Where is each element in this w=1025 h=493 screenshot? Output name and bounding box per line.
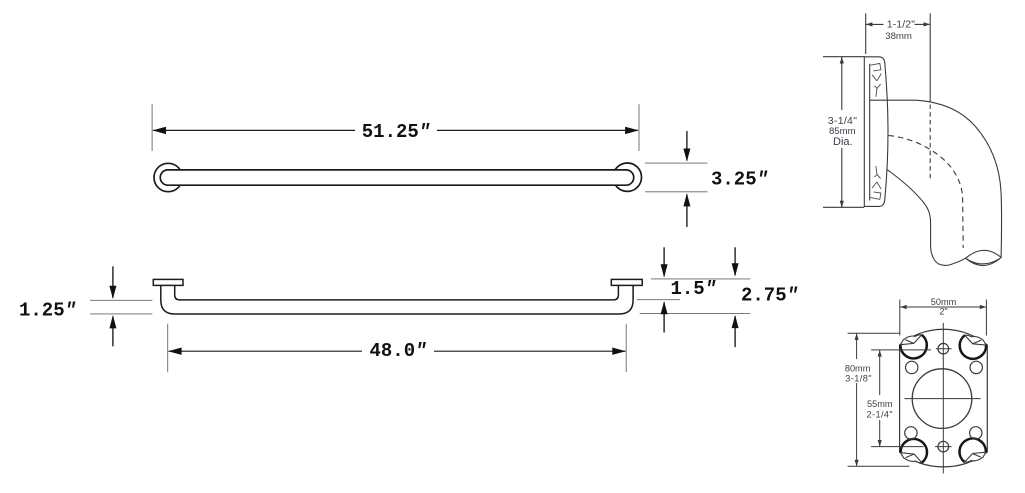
svg-text:3-1/8": 3-1/8" [845,374,872,384]
svg-text:55mm: 55mm [867,399,893,409]
label 1.5 [671,278,717,300]
dashed near-edge line [929,105,931,181]
extension line bottom 3-1/4 [823,206,864,208]
extension line top 1.25 [90,299,152,301]
arrow down 2.75 [732,247,739,276]
svg-text:1.5″: 1.5″ [671,278,717,300]
extension line top 3-1/4 [823,56,864,58]
extension line left 51.25 [151,104,153,151]
arrowhead down 55mm [878,440,882,447]
tube side view outer edge [161,285,633,314]
extension line top 1.5 / 2.75 [651,278,751,280]
extension line right 51.25 [638,104,640,151]
arrowhead up 55mm [878,350,882,357]
svg-text:2": 2" [939,307,947,317]
label 55mm 2-1/4in [866,399,893,419]
flange screw sketch top [871,63,882,96]
tube front view [160,170,633,185]
arrow up 1.25 [109,315,116,346]
extension line top 80mm [848,332,901,334]
screw hole bottom [938,441,949,452]
extension line left 50mm [899,300,901,336]
flange body outline [900,329,988,467]
extension line right 50mm [985,300,987,336]
flange plate right [611,279,642,285]
svg-text:51.25″: 51.25″ [362,121,430,143]
flange circle right [613,163,641,191]
extension line bottom 55mm [871,446,923,448]
extension line bottom 80mm [848,465,910,467]
svg-text:3-1/4": 3-1/4" [828,115,857,127]
arrow down 3.25 [683,131,690,162]
flange plate inner line [869,64,871,201]
arrowhead down 3-1/4 [840,201,844,208]
tube side view inner edge [175,285,619,300]
extension line bottom 3.25 [645,191,708,193]
extension line right 1-1/2 [929,13,931,102]
svg-text:1-1/2": 1-1/2" [887,19,915,31]
flange dome outline [864,57,888,207]
svg-text:38mm: 38mm [885,31,912,42]
extension line mid 1.5 [637,299,680,301]
small hole top-left [906,361,918,373]
label 50mm 2in [931,297,957,317]
extension line top 3.25 [645,162,708,164]
dimension line 3-1/4 [841,57,843,110]
arrowhead right 1-1/2 [924,22,931,26]
extension line top 55mm [871,349,931,351]
svg-text:48.0″: 48.0″ [369,340,426,362]
dimension line 80mm [856,333,858,359]
arrowhead left 1-1/2 [866,22,873,26]
dashed centerline curve [889,136,964,249]
screw hole top [938,343,949,354]
arrowhead down 80mm [855,460,859,467]
tube end wall thickness arc [967,258,1000,264]
label 80mm 3-1/8in [845,363,872,383]
svg-text:80mm: 80mm [845,363,871,373]
svg-text:50mm: 50mm [931,297,957,307]
small hole bottom-left [905,427,917,439]
screw hole bottom cross line [935,446,952,448]
arrow up 3.25 [683,193,690,227]
arrowhead up 3-1/4 [840,57,844,64]
screw hole top cross line [936,348,952,350]
arrow up 2.75 [732,315,739,347]
dimension line 51.25 [153,129,638,131]
arrow down 1.25 [109,266,116,299]
svg-text:2.75″: 2.75″ [741,284,798,306]
center line vertical [942,323,944,474]
extension line right 48.0 [625,324,627,372]
arrowhead up 80mm [855,333,859,340]
center circle [912,369,972,429]
label 3-1/4 85mm Dia [828,115,857,148]
label 3.25 [711,168,768,190]
locking tab top-right [960,335,986,359]
tube end opening lens [966,250,1002,265]
extension line bottom 2.75 [640,313,751,315]
locking tab bottom-left [901,439,927,463]
flange screw sketch bottom [871,166,882,199]
small hole bottom-right [970,427,982,439]
label 1.25 [19,299,76,321]
dimension line 1-1/2 [866,23,884,25]
flange plate left [153,279,183,285]
extension line bottom 1.25 [90,313,152,315]
arrow down 1.5 [661,247,668,277]
svg-text:Dia.: Dia. [833,136,853,148]
label 2.75 [741,284,798,306]
tube elbow top edge [870,100,1002,257]
arrowhead left 51.25 [153,127,167,134]
arrowhead right 51.25 [625,127,639,134]
locking tab bottom-right [960,438,986,462]
svg-text:3.25″: 3.25″ [711,168,768,190]
dimension line 55mm [879,350,881,395]
label 48.0 [369,340,426,362]
small hole top-right [970,361,982,373]
arrowhead right 48.0 [612,348,626,355]
label 51.25 [362,121,430,143]
arrowhead right 50mm [980,305,986,309]
extension line left 1-1/2 [865,13,867,54]
arrowhead left 50mm [900,305,906,309]
svg-text:1.25″: 1.25″ [19,299,76,321]
tube elbow inner edge [887,169,966,265]
locking tab top-left [900,335,926,359]
dimension line 48.0 [169,350,626,352]
dimension line 50mm [900,306,986,308]
center line horizontal [904,398,980,400]
arrow up 1.5 [661,301,668,332]
arrowhead left 48.0 [168,348,182,355]
wall face line [863,56,865,207]
extension line left 48.0 [167,324,169,372]
label 1-1/2 38mm [885,19,915,42]
flange circle left [154,163,182,191]
svg-text:2-1/4": 2-1/4" [866,409,893,419]
